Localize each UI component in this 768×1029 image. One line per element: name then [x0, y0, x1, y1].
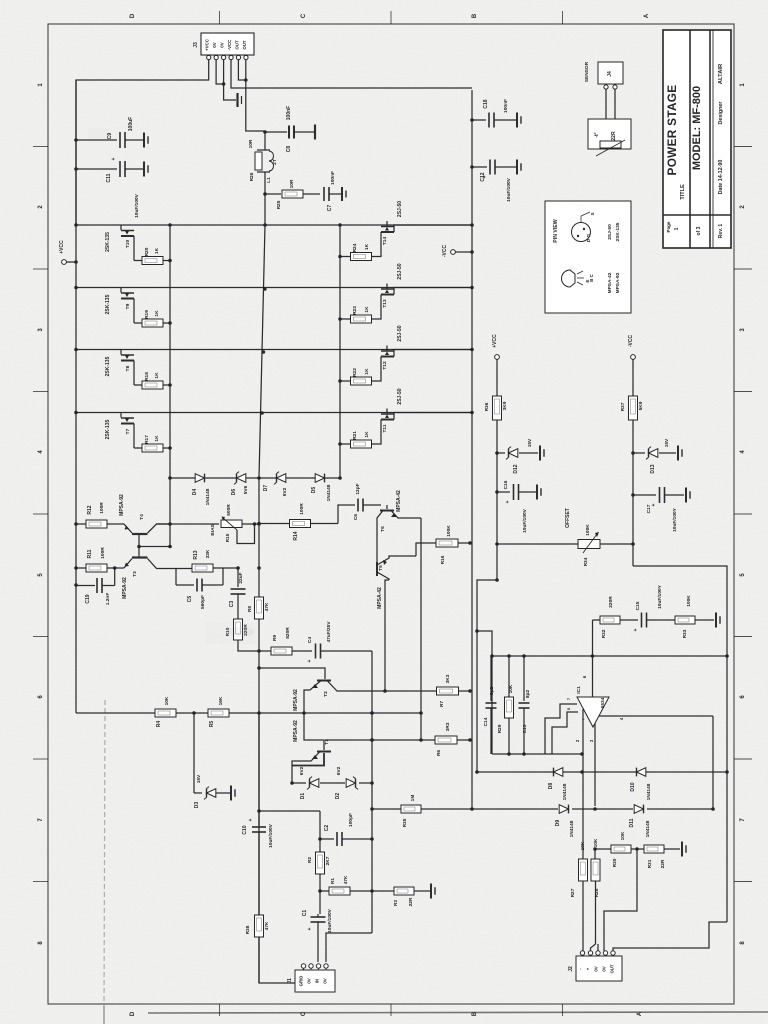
paper fold crease line	[104, 700, 105, 1006]
capacitor C14 8p2	[490, 656, 492, 701]
svg-text:C1: C1	[302, 910, 308, 917]
diode D4 1N4148	[195, 474, 204, 483]
zone ticks top edge	[219, 11, 221, 24]
resistor R14 100R	[259, 523, 290, 525]
svg-text:2SK-135: 2SK-135	[615, 222, 621, 241]
svg-text:PIN VIEW: PIN VIEW	[553, 219, 559, 242]
op-amp IC1 5534	[577, 697, 609, 727]
wire D3 branch	[193, 713, 195, 793]
svg-text:R22: R22	[352, 368, 358, 377]
resistor R2 2K7	[319, 839, 321, 852]
svg-text:10uF/100V: 10uF/100V	[506, 177, 512, 202]
capacitor C4 47uF/25V electrolytic	[315, 644, 317, 659]
svg-text:1N4148: 1N4148	[645, 820, 651, 837]
capacitor C5 560pF	[175, 569, 177, 586]
svg-text:POWER STAGE: POWER STAGE	[665, 85, 679, 176]
svg-text:6V2: 6V2	[282, 487, 288, 496]
capacitor C12 10uF/100V	[489, 160, 491, 175]
svg-text:J2: J2	[568, 966, 574, 972]
zener D3 15V	[207, 789, 216, 798]
svg-text:10K: 10K	[593, 838, 599, 847]
svg-text:MPSA-92: MPSA-92	[119, 494, 125, 516]
svg-text:0V: 0V	[220, 42, 225, 47]
svg-text:of 3: of 3	[696, 226, 702, 235]
svg-text:T4: T4	[139, 514, 145, 520]
svg-text:A: A	[644, 13, 650, 18]
svg-text:1K: 1K	[364, 306, 370, 313]
svg-text:D4: D4	[192, 489, 198, 496]
wire C10 branch	[257, 809, 261, 813]
connector J4 SENSOR	[598, 62, 623, 84]
wire J2 pin3 stub	[597, 944, 599, 951]
svg-text:500R: 500R	[226, 504, 232, 516]
zone ticks left edge	[33, 146, 48, 148]
svg-text:D: D	[130, 1011, 136, 1016]
svg-text:47uF/25V: 47uF/25V	[326, 621, 332, 643]
svg-text:1K: 1K	[154, 247, 160, 254]
resistor R11 100R	[76, 567, 86, 569]
zener D13 15V	[649, 449, 658, 458]
svg-text:15V: 15V	[527, 438, 533, 447]
zener D7 6V2	[277, 474, 286, 483]
transistor T8 2SK-135 N-MOSFET	[120, 350, 122, 355]
wire bus y=287.5	[76, 287, 472, 289]
svg-text:0V: 0V	[323, 978, 328, 983]
wire T12 source to rail	[394, 350, 472, 357]
svg-text:T3: T3	[132, 571, 138, 577]
svg-text:47K: 47K	[264, 921, 270, 930]
capacitor C19 1.2nF	[74, 583, 78, 587]
svg-text:B: B	[472, 13, 478, 18]
capacitor C9 100uF	[119, 132, 121, 148]
diode D5 1N4148	[315, 474, 324, 483]
svg-text:D10: D10	[630, 782, 636, 791]
node D13 tap	[631, 451, 635, 455]
wire T14 source to rail	[394, 225, 472, 232]
wire sensor leads	[605, 89, 607, 119]
svg-text:J4: J4	[607, 71, 613, 77]
wire T9 source	[133, 299, 135, 324]
svg-text:L1: L1	[266, 177, 272, 183]
wire J3 OUT pins	[238, 60, 245, 81]
svg-text:R24: R24	[352, 243, 358, 252]
svg-text:1N4148: 1N4148	[646, 783, 652, 800]
node C9 tap	[74, 138, 78, 142]
resistor R38 47K	[258, 832, 260, 915]
resistor R6 3R3	[435, 736, 457, 744]
svg-text:R3: R3	[393, 900, 399, 906]
svg-text:MPSA-42: MPSA-42	[607, 272, 613, 293]
svg-text:100pF: 100pF	[348, 813, 354, 827]
svg-text:5534: 5534	[600, 697, 606, 708]
svg-text:OUT: OUT	[235, 40, 240, 50]
resistor R29 10K	[508, 656, 510, 697]
node R9 row	[257, 649, 261, 653]
svg-text:5K9: 5K9	[638, 401, 644, 410]
resistor R16 100K	[436, 539, 458, 547]
svg-text:47K: 47K	[264, 602, 270, 611]
transistor T6 MPSA-42	[386, 505, 388, 509]
wire T14 gate down	[372, 232, 381, 257]
wire supply drop x=713	[712, 716, 714, 809]
wire gate bus x=340 right bank	[339, 225, 341, 478]
svg-text:R34: R34	[583, 557, 589, 566]
wire gate bus x=170 left bank	[169, 225, 171, 547]
node C18 tap	[470, 118, 474, 122]
resistor R30 10K row	[593, 847, 597, 851]
svg-text:SENSOR: SENSOR	[584, 61, 590, 82]
resistor R24 1K	[351, 253, 372, 261]
capacitor C16 10uF/100V	[513, 484, 515, 500]
terminal -VCC right	[631, 355, 636, 360]
capacitor C15 10uF/100Y	[641, 613, 643, 628]
svg-text:T5: T5	[378, 565, 384, 571]
svg-text:D G: D G	[586, 233, 591, 242]
svg-text:10K: 10K	[620, 831, 626, 840]
resistor R37 1W 5K9	[629, 396, 638, 420]
resistor R7 3K3	[437, 687, 459, 695]
pin view detail box	[545, 201, 631, 313]
wire 0V sense route	[604, 849, 637, 951]
node offset line	[495, 542, 499, 546]
svg-text:0V: 0V	[307, 978, 312, 983]
diode D10 1N4148	[637, 768, 646, 777]
diode D9 1N4148	[559, 805, 568, 814]
wire T8 source	[133, 361, 135, 386]
svg-text:10R: 10R	[289, 179, 295, 188]
svg-text:S: S	[590, 212, 595, 215]
svg-text:1K: 1K	[364, 431, 370, 438]
title block frame	[663, 30, 731, 248]
wire T13 source to rail	[394, 288, 472, 295]
ground symbol near J3	[236, 93, 238, 107]
diode rail 1 y=772	[477, 771, 727, 773]
svg-text:R6: R6	[436, 750, 442, 756]
wire to C8	[265, 131, 287, 133]
wire J2 OUT route	[613, 922, 727, 951]
svg-text:10K: 10K	[164, 696, 170, 705]
resistor R31 22R	[631, 848, 644, 850]
svg-text:D6: D6	[231, 489, 237, 496]
resistor R35 1M	[401, 805, 421, 813]
wire center vertical through MOSFET rows	[259, 225, 265, 478]
svg-text:A: A	[637, 1011, 643, 1016]
svg-text:100K: 100K	[446, 525, 452, 537]
svg-text:2SJ-50: 2SJ-50	[397, 263, 403, 279]
svg-text:MPSA-92: MPSA-92	[122, 577, 128, 599]
resistor R36 1W 3K9	[493, 396, 502, 420]
transistor T14 2SJ-50 P-MOSFET	[386, 221, 388, 226]
transistor T3 MPSA-92	[132, 556, 148, 558]
svg-text:R12: R12	[87, 505, 93, 514]
resistor R8 47K	[255, 597, 264, 619]
svg-text:D11: D11	[629, 818, 635, 827]
wire OUT drop to C8 node	[246, 60, 265, 132]
wire -VCC drop	[632, 359, 634, 566]
wire T10 source	[133, 236, 135, 261]
svg-text:0V: 0V	[212, 42, 217, 47]
resistor R33 100K	[675, 616, 695, 624]
svg-text:D2: D2	[335, 793, 341, 800]
resistor R4 10K	[155, 709, 176, 717]
svg-text:J3: J3	[193, 42, 199, 48]
scanner paper edge line bottom	[148, 1012, 768, 1013]
svg-text:C8: C8	[286, 146, 292, 153]
resistor R5 16K	[208, 709, 229, 717]
svg-text:1: 1	[674, 227, 680, 230]
svg-text:-VCC: -VCC	[628, 335, 634, 348]
wire output net right side x=727	[633, 566, 727, 922]
resistor R28 2W 10K	[594, 849, 596, 859]
svg-text:C15: C15	[635, 601, 641, 610]
svg-text:C19: C19	[85, 594, 91, 603]
svg-text:100nF: 100nF	[286, 106, 292, 120]
TO-3 package drawing	[572, 223, 591, 242]
svg-text:D13: D13	[650, 464, 656, 473]
svg-text:2K7: 2K7	[325, 856, 331, 865]
svg-text:IN: IN	[315, 979, 320, 983]
wire output bus y=225	[76, 224, 472, 226]
wire J1 feed	[326, 933, 372, 962]
wire J3 pin1 +VCC to left rail	[76, 60, 209, 226]
diode D8 1N4148	[554, 768, 563, 777]
svg-text:R33: R33	[682, 629, 688, 638]
svg-text:R4: R4	[156, 721, 162, 728]
wire bus y=349.5	[76, 349, 472, 351]
wire R10 to R9 node	[238, 640, 259, 651]
svg-text:C: C	[301, 1011, 307, 1016]
svg-text:D7: D7	[263, 485, 269, 492]
resistor R18 1K	[134, 384, 142, 386]
node OUT junction	[263, 130, 267, 134]
resistor R21 1K	[351, 440, 372, 448]
svg-text:R19: R19	[144, 310, 150, 319]
wire R16 row	[416, 543, 436, 556]
svg-text:D5: D5	[311, 487, 317, 494]
thermistor 22R -t box	[588, 119, 631, 149]
svg-text:R15: R15	[225, 533, 231, 542]
svg-text:R25: R25	[276, 200, 282, 209]
wire T1 base line to R6	[325, 739, 435, 741]
wire -VCC vertical rail x=472	[471, 90, 473, 809]
wire T7 source	[133, 424, 135, 449]
svg-text:MPSA-42: MPSA-42	[377, 587, 383, 609]
svg-text:R30: R30	[612, 858, 618, 867]
svg-text:10uF/100V: 10uF/100V	[327, 908, 333, 933]
wire J3 pin4 -VCC rail to right	[231, 60, 472, 89]
wire opamp supply route from +VCC	[495, 578, 499, 582]
svg-text:T14: T14	[382, 237, 388, 246]
svg-text:C13: C13	[522, 724, 528, 733]
svg-text:10K: 10K	[580, 841, 586, 850]
svg-text:560pF: 560pF	[200, 595, 206, 609]
svg-text:0V: 0V	[602, 966, 607, 971]
capacitor C1 10uF/100V	[311, 916, 326, 918]
svg-text:6V2: 6V2	[299, 766, 305, 775]
node R25 tap	[263, 192, 267, 196]
svg-text:R18: R18	[144, 372, 150, 381]
wire opamp comp pins staircase	[545, 704, 577, 754]
svg-text:Date 14-12-90: Date 14-12-90	[718, 160, 724, 195]
wire C2 node	[319, 811, 321, 839]
svg-text:100uF: 100uF	[128, 117, 134, 131]
svg-text:C5: C5	[187, 596, 193, 603]
svg-text:+: +	[307, 659, 313, 662]
svg-text:1N4148: 1N4148	[326, 484, 332, 501]
capacitor C11 10uF/100V electrolytic	[119, 161, 121, 177]
node T2 base row	[257, 666, 261, 670]
svg-text:C14: C14	[483, 717, 489, 726]
svg-text:10R: 10R	[248, 139, 254, 148]
scan artifacts	[205, 622, 255, 644]
resistor R22 1K	[351, 377, 372, 385]
svg-text:22R: 22R	[660, 859, 666, 868]
svg-text:+: +	[505, 500, 511, 503]
svg-text:10uF/100Y: 10uF/100Y	[672, 507, 678, 532]
svg-text:R32: R32	[601, 629, 607, 638]
svg-text:-t°: -t°	[594, 132, 600, 137]
svg-text:C17: C17	[646, 504, 652, 513]
svg-text:D9: D9	[555, 820, 561, 827]
wire bus y=412.5	[76, 412, 472, 414]
svg-text:GRID: GRID	[299, 976, 304, 987]
svg-text:1K: 1K	[154, 372, 160, 379]
connector J2 output	[576, 956, 622, 981]
resistor R9 820R	[259, 650, 271, 652]
svg-text:1K: 1K	[154, 435, 160, 442]
svg-text:R2: R2	[307, 857, 313, 863]
svg-text:T12: T12	[382, 361, 388, 370]
wire T11 gate down	[372, 420, 381, 445]
svg-text:C2: C2	[324, 825, 330, 832]
svg-text:C6: C6	[353, 514, 359, 520]
svg-text:Rev. 1: Rev. 1	[718, 224, 724, 239]
svg-text:1K: 1K	[364, 243, 370, 250]
wire bias row y=478	[170, 477, 340, 479]
svg-text:2SJ-50: 2SJ-50	[607, 224, 613, 240]
svg-text:OUT: OUT	[242, 40, 247, 50]
svg-text:R29: R29	[497, 724, 503, 733]
svg-text:10uF/100V: 10uF/100V	[522, 508, 528, 533]
capacitor C2 100pF	[318, 837, 322, 841]
svg-text:R36: R36	[484, 402, 490, 411]
svg-text:5V6: 5V6	[243, 485, 249, 494]
resistor R20 1K	[134, 260, 142, 262]
connector J1 GRID 0V IN 0V	[295, 970, 335, 992]
zener D6 5V6	[237, 474, 246, 483]
svg-text:T13: T13	[382, 299, 388, 308]
svg-text:MPSA-92: MPSA-92	[293, 689, 299, 711]
svg-text:T10: T10	[125, 240, 131, 249]
svg-text:T11: T11	[382, 424, 388, 432]
svg-text:C: C	[301, 13, 307, 18]
svg-text:0V: 0V	[594, 966, 599, 971]
svg-text:10uF/100V: 10uF/100V	[268, 823, 274, 848]
resistor R19 1K	[134, 322, 142, 324]
wire main vertical x=259	[258, 478, 260, 983]
wire to R25	[265, 193, 281, 195]
svg-text:100K: 100K	[585, 524, 591, 536]
svg-text:2SJ-50: 2SJ-50	[397, 325, 403, 341]
svg-text:MPSA-92: MPSA-92	[293, 720, 299, 742]
resistor R23 1K	[351, 315, 372, 323]
svg-text:R35: R35	[402, 818, 408, 827]
svg-text:R11: R11	[87, 549, 93, 558]
svg-text:R5: R5	[209, 721, 215, 728]
wire T12 gate down	[372, 357, 381, 382]
svg-text:C18: C18	[483, 99, 489, 108]
svg-text:1K: 1K	[154, 310, 160, 317]
svg-text:R14: R14	[293, 531, 299, 540]
svg-text:D1: D1	[300, 793, 306, 800]
resistor R3 22R	[372, 890, 394, 892]
resistor R12 100R	[86, 520, 107, 528]
svg-text:22R: 22R	[611, 131, 617, 141]
svg-text:100nF: 100nF	[330, 171, 336, 185]
svg-text:15V: 15V	[196, 774, 202, 783]
transistor T7 2SK-135 N-MOSFET	[120, 413, 122, 418]
wire opamp inputs down	[582, 709, 584, 754]
wire T13 gate down	[372, 295, 381, 320]
capacitor C10 10uF/100V	[252, 826, 266, 828]
wire bottom rail y=754	[492, 753, 582, 755]
inductor L1 2T with resistor R26 10R	[264, 132, 266, 150]
transistor T10 2SK-135 N-MOSFET	[120, 225, 122, 230]
wire +VCC left rail x=76	[75, 80, 77, 713]
transistor T11 2SJ-50 P-MOSFET	[386, 409, 388, 414]
wire y=524 bias line	[76, 523, 86, 525]
diode D11 1N4148	[634, 805, 643, 814]
svg-text:2SJ-50: 2SJ-50	[397, 388, 403, 404]
svg-text:C11: C11	[106, 173, 112, 182]
svg-text:R7: R7	[439, 701, 445, 707]
trimmer R15 500R BIAS	[221, 520, 242, 528]
svg-text:R27: R27	[570, 888, 576, 897]
svg-text:T8: T8	[125, 365, 131, 371]
svg-text:C12: C12	[480, 172, 486, 181]
capacitor C17 10uF/100Y	[659, 487, 661, 503]
svg-text:2SK-135: 2SK-135	[105, 419, 111, 439]
svg-text:R9: R9	[272, 635, 278, 641]
svg-text:R1: R1	[330, 878, 336, 884]
wire R35 row	[372, 808, 401, 810]
svg-text:-VCC: -VCC	[227, 39, 232, 51]
svg-text:+VCC: +VCC	[492, 334, 498, 348]
svg-text:+VCC: +VCC	[205, 38, 210, 51]
svg-text:10uF/100Y: 10uF/100Y	[657, 584, 663, 609]
diode rail 2 y=809	[572, 808, 633, 810]
wire +VCC drop	[496, 359, 498, 580]
svg-text:1N4148: 1N4148	[562, 783, 568, 800]
capacitor C13 8p2	[523, 656, 525, 701]
svg-text:R23: R23	[352, 306, 358, 315]
svg-text:16K: 16K	[218, 696, 224, 705]
svg-text:R16: R16	[440, 555, 446, 564]
svg-text:2SJ-50: 2SJ-50	[397, 201, 403, 217]
svg-text:2SK-135: 2SK-135	[105, 232, 111, 252]
svg-text:T7: T7	[125, 428, 131, 434]
svg-text:OFFSET: OFFSET	[565, 508, 571, 528]
terminal +VCC right	[495, 355, 500, 360]
node T3-T4 base join	[137, 545, 141, 549]
resistor R17 1K	[134, 447, 142, 449]
svg-text:R21: R21	[352, 431, 358, 440]
svg-text:+: +	[633, 628, 639, 631]
svg-text:D8: D8	[548, 783, 554, 790]
capacitor C8 100nF	[288, 126, 290, 139]
zener D1 6V2 and D2 6V2 row	[290, 781, 294, 785]
zone ticks bottom edge	[219, 1004, 221, 1016]
